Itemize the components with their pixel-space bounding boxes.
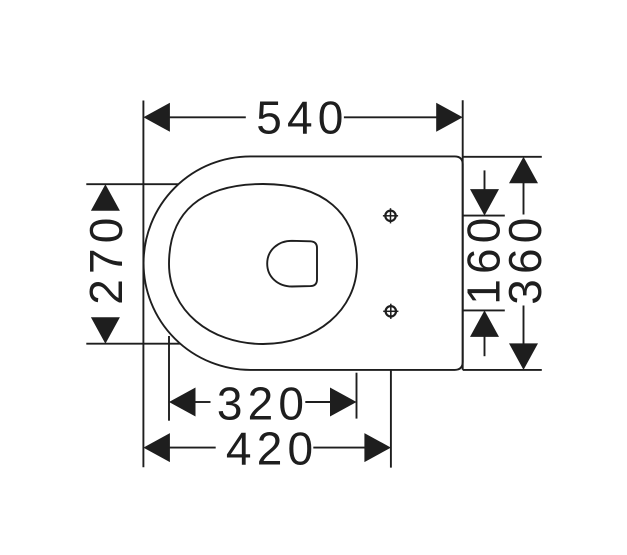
svg-text:540: 540 [256,92,348,144]
dimension 360 line top segment [523,182,525,215]
dimension 320 line left segment [195,401,211,403]
extension line left (front of bowl, shared by 540 and 420) [142,101,144,468]
dimension 270 top arrow [91,184,120,211]
drain outline [267,241,317,287]
dimension 420 right extension line [390,370,392,468]
toilet outer shell [144,156,463,370]
dimension 360 top arrow (pointing up) [509,157,538,184]
dimension 420 left arrow [143,433,170,462]
dimension 540 line left segment [168,116,246,118]
dimension 360 bottom extension line [463,369,542,371]
dimension 540 line right segment [344,116,437,118]
dimension 360 top extension line [463,156,542,158]
dimension 540 right arrow [436,103,463,132]
dimension 270 top extension line [86,183,178,185]
dimension 160 bottom leader line [484,337,486,357]
dimension 160 top leader line [484,170,486,189]
dimension 540 left arrow [143,103,170,132]
svg-text:270: 270 [80,212,132,304]
dimension 160 top arrow (pointing down) [470,189,499,216]
dimension 420 right arrow [364,433,391,462]
dimension 320 line right segment [305,401,331,403]
svg-text:360: 360 [499,212,551,304]
dimension 420 line right segment [313,447,365,449]
dimension 360 line bottom segment [523,306,525,345]
dimension 320 left extension line [168,336,170,421]
mounting hole top [383,208,398,223]
dimension 270 bottom extension line [86,343,180,345]
dimension 320 right arrow [330,388,357,417]
dimension 160 bottom arrow (pointing up) [470,310,499,337]
inner bowl rim [169,184,357,344]
dimension 420 line left segment [168,447,216,449]
svg-text:420: 420 [226,422,318,474]
dimension 360 bottom arrow (pointing down) [509,343,538,370]
dimension 160 top extension line [463,215,505,217]
dimension 320 left arrow [169,388,196,417]
dimension 320 right extension line [356,373,358,419]
extension line right wall (shared by 540, top of shell) [462,100,464,370]
dimension 160 bottom extension line [463,309,505,311]
dimension 270 bottom arrow [91,317,120,344]
mounting hole bottom [383,304,398,319]
